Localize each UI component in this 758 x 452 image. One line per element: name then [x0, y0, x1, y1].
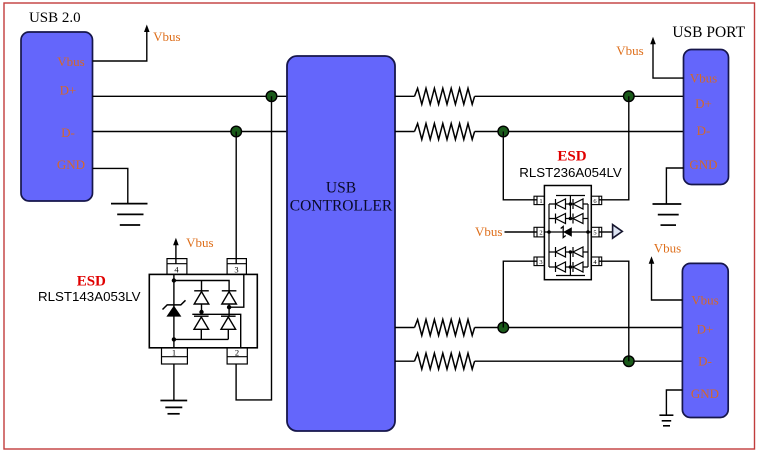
wire D-2 junction to U2 bottom-right pin [599, 261, 629, 361]
diode D4 [221, 316, 236, 329]
U2 diode row3 right [573, 247, 583, 257]
svg-text:USB 2.0: USB 2.0 [29, 10, 81, 26]
U2 diode row4 left [556, 262, 566, 272]
wire controller D+2 out [395, 327, 415, 329]
U1 junction dot bottom [172, 337, 176, 341]
svg-text:1: 1 [172, 348, 176, 358]
wire R2 to J2 D- [475, 131, 684, 133]
U2 zener middle [561, 227, 572, 238]
node D- junction dot [231, 126, 242, 137]
connector J1 USB 2.0 [21, 32, 93, 201]
wire D+2 junction to U2 bottom-left pin [503, 261, 537, 327]
wire D- junction down to U1 pin3 [235, 132, 237, 264]
svg-text:Vbus: Vbus [475, 224, 502, 239]
wire R1 to J2 D+ [475, 95, 684, 97]
svg-text:GND: GND [57, 157, 85, 172]
U2 pin 5 (right middle) [591, 227, 601, 237]
wire J2 GND to ground [666, 168, 683, 204]
svg-text:D+: D+ [697, 322, 714, 337]
wire J1 Vbus to arrow [93, 31, 147, 61]
svg-text:D-: D- [61, 125, 75, 140]
U1 pin 2 [227, 348, 247, 364]
U2 diode row2 right [573, 214, 583, 224]
U2 pin 3 (left bottom) [534, 257, 544, 266]
U2 pin 6 (right top) [591, 196, 601, 204]
wire R4 to J3 D- [475, 360, 683, 362]
wire J1 D+ to controller [93, 95, 288, 97]
wire J1 GND to ground [93, 168, 128, 203]
svg-text:Vbus: Vbus [153, 29, 180, 44]
U2 junction dots [547, 230, 551, 234]
wire J3 GND to ground [666, 390, 682, 415]
U1 bottom rail wire [174, 329, 228, 339]
svg-text:GND: GND [689, 157, 717, 172]
U2 diode row1 right [573, 199, 583, 209]
ESD U2 body [544, 186, 591, 280]
svg-text:3: 3 [539, 259, 542, 266]
node D+ junction dot [266, 91, 277, 102]
zener Z1 [163, 300, 186, 316]
svg-text:CONTROLLER: CONTROLLER [290, 197, 393, 214]
ESD U1 body [149, 274, 257, 347]
svg-text:D+: D+ [695, 96, 712, 111]
U2 diode row3 left [556, 247, 566, 257]
ground symbol left [111, 204, 148, 225]
U1 node A wire [201, 304, 203, 314]
svg-text:USB: USB [326, 180, 356, 197]
U2 inner rails [544, 196, 591, 276]
diode D2 [222, 291, 237, 304]
Vbus arrow above U1 pin4 [175, 244, 177, 263]
svg-text:Vbus: Vbus [186, 235, 213, 250]
connector J2 USB PORT [684, 50, 729, 185]
resistor R2 [415, 124, 475, 140]
diode D3 [194, 316, 209, 329]
svg-text:Vbus: Vbus [654, 240, 681, 255]
svg-text:2: 2 [539, 230, 542, 237]
node junction dot D-2 [624, 356, 635, 367]
wire J1 D- to controller [93, 131, 288, 133]
node junction dot D+2 [498, 322, 509, 333]
U2 pin 1 (left top) [534, 196, 544, 204]
svg-text:D-: D- [697, 123, 711, 138]
U1 node B wire to pin3 [229, 274, 244, 316]
svg-text:Vbus: Vbus [691, 293, 718, 308]
svg-text:RLST236A054LV: RLST236A054LV [519, 165, 622, 180]
svg-text:1: 1 [539, 198, 542, 205]
wire controller D-2 out [395, 360, 415, 362]
node junction dot D- right [498, 126, 509, 137]
ground symbol bottom-right [659, 415, 673, 426]
wire Vbus to U2 pin2 [505, 231, 538, 233]
indicator triangle [613, 225, 623, 239]
connector J3 bottom right [682, 263, 728, 417]
svg-text:USB PORT: USB PORT [672, 24, 745, 41]
ground symbol top-right [653, 204, 682, 225]
resistor R4 [415, 353, 475, 369]
resistor R3 [415, 320, 475, 336]
U1 pin 4 [167, 259, 187, 275]
wire J2 Vbus arrow [653, 44, 684, 78]
svg-text:ESD: ESD [557, 149, 586, 165]
wire U2 pin5 to indicator [599, 231, 613, 233]
svg-text:2: 2 [235, 348, 239, 358]
wire D+ right junction to U2 top-right pin [599, 96, 629, 200]
wire controller D- out [395, 131, 415, 133]
USB controller U3 [287, 56, 395, 431]
wire D+ junction down to U1 pin2 [236, 96, 271, 400]
wire D- right junction to U2 top-left pin [503, 132, 537, 200]
svg-text:GND: GND [691, 386, 719, 401]
U2 diode row4 right [573, 262, 583, 272]
svg-text:Vbus: Vbus [690, 71, 717, 86]
U2 pin 4 (right bottom) [591, 257, 601, 266]
diode D1 [194, 291, 209, 304]
Vbus arrow top-left [144, 25, 150, 33]
node junction dot D+ right [624, 91, 635, 102]
svg-text:ESD: ESD [77, 274, 106, 290]
wire U1 pin1 to ground [173, 364, 175, 400]
svg-text:5: 5 [593, 230, 596, 237]
svg-text:Vbus: Vbus [57, 54, 84, 69]
svg-text:RLST143A053LV: RLST143A053LV [38, 289, 141, 304]
svg-text:3: 3 [234, 264, 238, 274]
resistor R1 [415, 88, 475, 104]
svg-text:D-: D- [698, 354, 712, 369]
wire controller D+ out [395, 95, 415, 97]
ground symbol under U1 [160, 401, 187, 414]
U1 internal vertical rail [173, 274, 175, 347]
U1 pin 1 [162, 348, 188, 364]
U1 top rail wire [174, 281, 229, 291]
U1 middle rail to pin2 [192, 314, 240, 348]
U2 diode row2 left [556, 214, 566, 224]
U2 diode row1 left [556, 199, 566, 209]
U1 pin 3 [227, 259, 246, 275]
U1 junction dot top [172, 278, 176, 282]
svg-text:Vbus: Vbus [616, 43, 643, 58]
U2 pin 2 (left middle) [534, 227, 544, 237]
wire J3 Vbus arrow [652, 263, 683, 300]
wire R3 to J3 D+ [475, 327, 683, 329]
svg-text:D+: D+ [60, 83, 77, 98]
